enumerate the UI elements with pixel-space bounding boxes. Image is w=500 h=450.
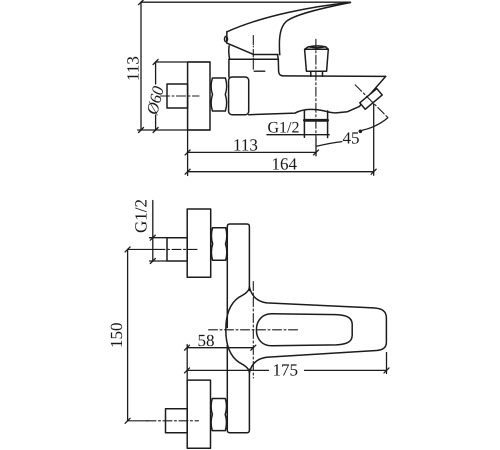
tick bottom of dia60 <box>153 128 158 133</box>
ticks 175 <box>185 368 390 373</box>
neck right edge into spout top <box>278 55 386 77</box>
shower outlet stub at 45 deg <box>360 89 382 110</box>
tick top of dia60 <box>153 60 158 65</box>
dimension line 58 <box>187 347 253 349</box>
ticks G1/2 dim <box>150 235 155 263</box>
lever inner contour <box>256 314 352 346</box>
svg-text:45: 45 <box>343 128 360 147</box>
leader arc left of 45 <box>316 142 341 147</box>
degree dot <box>359 130 363 134</box>
hose outlet fitting thick band <box>304 119 327 122</box>
svg-text:150: 150 <box>107 323 126 349</box>
handle horizontal centerline <box>209 329 299 331</box>
valve centerline vertical <box>252 36 254 70</box>
svg-text:G1/2: G1/2 <box>268 120 300 137</box>
diverter/outlet centerline <box>315 39 317 137</box>
diverter knob <box>305 46 329 71</box>
nipple centerline <box>161 95 200 97</box>
lower nut (top view) <box>211 399 226 431</box>
svg-text:G1/2: G1/2 <box>132 199 151 233</box>
dimension line 164 <box>188 171 374 173</box>
ticks 113 horizontal <box>185 150 318 155</box>
upper flange (top view) <box>187 209 211 277</box>
extension upper nipple centerline to 150 dim <box>128 248 157 250</box>
tick bottom of 113 vertical <box>139 128 144 133</box>
handle vertical centerline <box>252 282 254 379</box>
extension line left flange edge down <box>187 130 189 176</box>
svg-text:113: 113 <box>233 136 258 155</box>
dimension line 150 <box>127 249 129 420</box>
extension lines nipple top/bottom <box>150 238 168 261</box>
valve body block <box>229 77 249 115</box>
extension lower nipple centerline to 150 dim <box>128 420 148 422</box>
spout underside <box>249 76 386 114</box>
dimension line 175 <box>187 369 387 371</box>
svg-text:Ø60: Ø60 <box>142 84 168 118</box>
lower nipple centerline <box>147 420 199 422</box>
handle dome left edge <box>228 46 231 59</box>
extension line lever right end <box>386 353 388 374</box>
svg-text:113: 113 <box>124 56 143 81</box>
svg-text:58: 58 <box>198 331 215 350</box>
neck left edge <box>228 59 230 77</box>
dimension line G1/2 <box>152 201 154 262</box>
handle pivot blob (top view) <box>226 287 250 373</box>
extension line outlet center down <box>315 138 317 156</box>
upper nipple centerline <box>156 248 199 250</box>
dimension line 113 horizontal <box>188 151 316 153</box>
outlet axis 45 deg centerline <box>355 85 387 117</box>
tick top of 113 vertical <box>139 0 144 5</box>
hose outlet fitting sides <box>304 111 327 138</box>
lever handle nose screw ellipse <box>225 36 228 41</box>
lower flange (top view) <box>187 380 210 448</box>
lever handle nose <box>227 32 233 46</box>
extension line bottom of flange <box>138 129 210 131</box>
lever handle top edge <box>227 3 351 32</box>
upper nut (top view) <box>211 228 226 261</box>
lower nipple (top view) <box>166 409 188 433</box>
svg-text:175: 175 <box>273 361 299 380</box>
ticks 58 <box>185 345 256 350</box>
dimension line 113 vertical <box>140 2 142 130</box>
wall flange (side view) <box>188 62 210 130</box>
lever handle underside <box>279 3 350 55</box>
ring bottom line <box>230 58 279 60</box>
extension line top of flange <box>156 61 210 63</box>
G1/2 leader underline and fitting step <box>267 134 329 136</box>
extension line from handle top <box>141 1 350 3</box>
svg-text:164: 164 <box>272 155 298 174</box>
extension line flange left edge up <box>186 345 188 381</box>
connection nut (side view) <box>211 78 226 111</box>
wall nipple <box>167 84 188 108</box>
extension line shower stub down <box>373 104 375 175</box>
lever outline (top view) <box>249 287 386 373</box>
diverter knob stem <box>311 71 323 76</box>
ring top line <box>253 54 278 56</box>
handle dome diagonal <box>233 46 253 55</box>
body plate (top view) <box>227 224 249 433</box>
ticks 150 <box>125 247 130 423</box>
valve centerline horizontal tick <box>254 70 265 72</box>
leader arc right of 45 <box>362 118 387 131</box>
dimension line diameter 60 <box>155 62 157 130</box>
ticks 164 <box>185 169 376 174</box>
upper nipple (top view) <box>167 238 187 261</box>
